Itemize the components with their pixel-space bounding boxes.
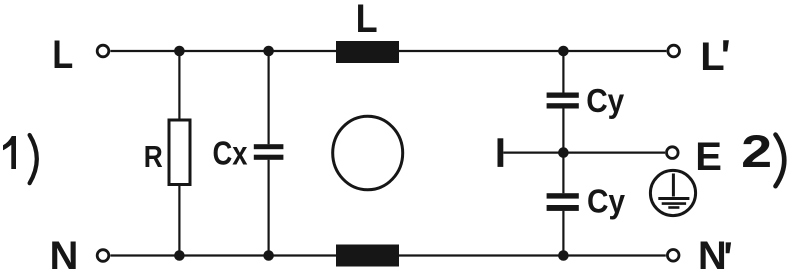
wire top rail left xyxy=(110,50,336,52)
junction dot earth node xyxy=(558,147,569,158)
svg-text:L: L xyxy=(356,0,378,41)
svg-text:L: L xyxy=(52,33,73,77)
label 2) xyxy=(741,126,784,186)
node N (input terminal) xyxy=(97,250,109,262)
junction dot bottom rail at Cy branch xyxy=(558,250,569,261)
protective earth symbol xyxy=(650,170,695,215)
chassis terminal bar xyxy=(498,138,504,167)
junction dot bottom rail at R branch xyxy=(174,250,185,261)
inductor L winding top (common-mode choke) xyxy=(336,41,399,63)
wire Cy branch middle segment xyxy=(562,108,564,193)
wire top rail right xyxy=(399,50,666,52)
svg-text:N: N xyxy=(50,234,79,270)
svg-text:Cy: Cy xyxy=(586,82,625,119)
svg-text:N: N xyxy=(698,234,727,270)
svg-text:L: L xyxy=(700,35,724,79)
choke core circle xyxy=(333,116,403,190)
svg-text:R: R xyxy=(144,139,163,174)
svg-text:2: 2 xyxy=(741,126,772,177)
svg-text:Cx: Cx xyxy=(213,135,249,172)
wire bottom rail left xyxy=(110,254,336,256)
node L (input terminal) xyxy=(97,45,109,57)
wire earth middle xyxy=(503,152,665,154)
node L' (output terminal) xyxy=(668,45,680,57)
wire Cy branch top segment xyxy=(562,51,564,93)
junction dot top rail at R branch xyxy=(174,46,185,57)
junction dot top rail at Cx branch xyxy=(263,46,274,57)
junction dot top rail at Cy branch xyxy=(558,46,569,57)
node E (earth terminal) xyxy=(667,147,679,159)
wire resistor branch vertical xyxy=(178,51,180,256)
junction dot bottom rail at Cx branch xyxy=(263,250,274,261)
label 1) xyxy=(3,135,37,183)
svg-text:Cy: Cy xyxy=(587,183,626,220)
wire Cx branch upper xyxy=(268,51,270,144)
inductor winding bottom (common-mode choke) xyxy=(336,245,399,267)
capacitor Cy upper plates xyxy=(547,93,579,109)
capacitor Cx plates xyxy=(254,144,284,160)
resistor R body xyxy=(169,120,190,185)
node N' (output terminal) xyxy=(667,250,679,262)
wire bottom rail right xyxy=(399,254,666,256)
wire Cx branch lower xyxy=(268,160,270,256)
wire Cy branch bottom segment xyxy=(562,211,564,256)
svg-text:E: E xyxy=(695,135,722,179)
capacitor Cy lower plates xyxy=(547,193,579,211)
